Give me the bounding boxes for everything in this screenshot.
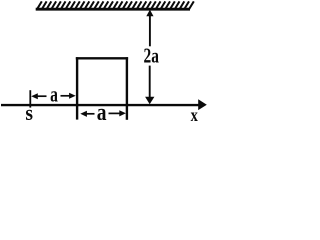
ceiling hatching (37, 1, 194, 10)
ceiling line (36, 8, 190, 11)
bottom dimension a (arrows) (80, 110, 126, 117)
svg-text:x: x (191, 104, 199, 125)
svg-text:s: s (25, 100, 33, 126)
svg-text:a: a (97, 98, 107, 126)
svg-text:2a: 2a (144, 44, 159, 67)
tick mark at s (29, 90, 31, 107)
box (square potential well) (76, 57, 128, 120)
dimension arrow 2a upper (up arrowhead + shaft) (146, 10, 153, 47)
left dimension a (arrows) (31, 93, 75, 100)
svg-text:a: a (50, 83, 58, 107)
x-axis (1, 99, 207, 110)
dimension arrow 2a lower (shaft + down arrowhead) (145, 66, 154, 105)
